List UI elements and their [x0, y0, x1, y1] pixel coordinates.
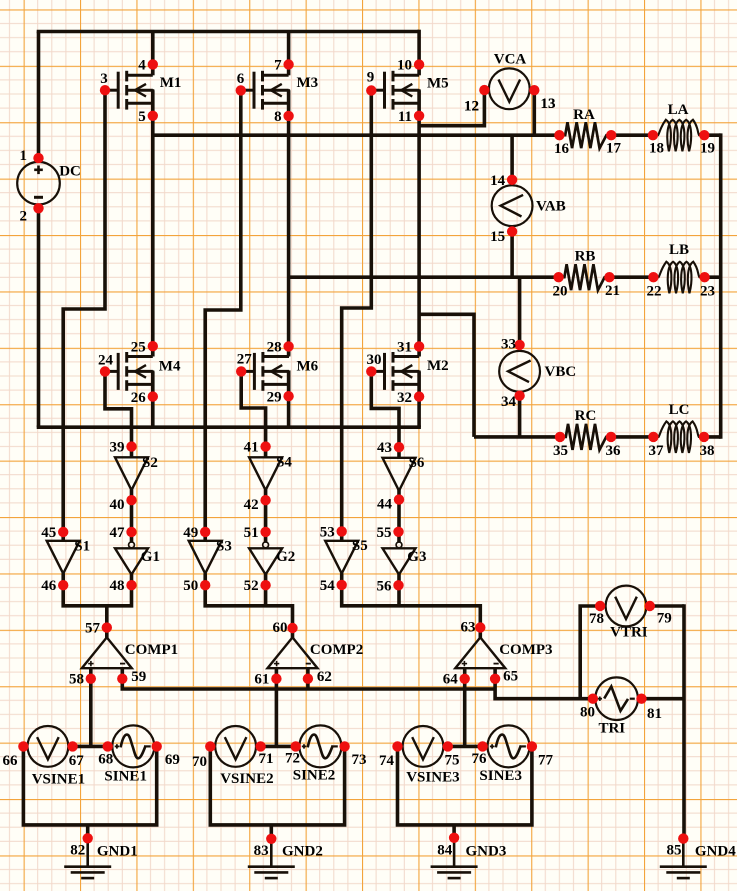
node 40	[110, 495, 137, 513]
node 72	[285, 741, 301, 766]
sine source SINE3	[488, 725, 530, 767]
comparator COMP2	[268, 637, 364, 668]
wire M6 gate to S4 input node 41	[241, 371, 265, 446]
node 73	[339, 741, 366, 768]
wire S4 to node 42 node 51 G2	[264, 490, 268, 543]
wire node 64 to sine row	[463, 679, 467, 747]
node 81	[636, 694, 662, 722]
svg-text:44: 44	[377, 496, 393, 512]
svg-text:G1: G1	[141, 549, 160, 565]
node 83	[254, 834, 277, 859]
ground GND4	[660, 839, 736, 879]
node 53	[320, 524, 347, 540]
wire S5 to node 54	[340, 573, 344, 585]
wire RC to LC link	[611, 435, 653, 439]
triangle source TRI	[595, 677, 638, 720]
wire LB to right rail	[705, 275, 721, 279]
node 20	[553, 272, 568, 299]
node 32	[397, 390, 424, 406]
svg-text:57: 57	[85, 620, 101, 636]
svg-text:47: 47	[110, 525, 126, 541]
buffer G3	[383, 542, 427, 575]
svg-text:VTRI: VTRI	[610, 625, 648, 641]
wire M2 source drop node 32	[417, 371, 421, 427]
wire node 11 to node 12 branch	[419, 90, 484, 126]
wire node 71 to node 72	[256, 745, 300, 749]
ground GND1	[64, 838, 138, 878]
node 9	[366, 70, 376, 96]
node 19	[699, 130, 715, 157]
node 60	[273, 620, 298, 636]
node 28	[267, 339, 294, 355]
svg-text:M4: M4	[159, 359, 181, 375]
node 56	[377, 578, 404, 594]
svg-text:VSINE2: VSINE2	[220, 771, 273, 787]
transistor M1	[105, 64, 181, 116]
node 21	[604, 272, 620, 299]
transistor M4	[105, 346, 181, 398]
svg-text:36: 36	[606, 443, 622, 459]
wire DC top lead	[37, 32, 41, 164]
node 48	[110, 578, 137, 594]
svg-text:39: 39	[110, 440, 125, 456]
node 63	[461, 620, 486, 636]
svg-text:78: 78	[589, 611, 604, 627]
node 55	[377, 525, 404, 541]
svg-text:GND2: GND2	[282, 843, 323, 859]
svg-text:28: 28	[267, 339, 282, 355]
wire node 65 to node 80 TRI	[495, 679, 597, 699]
node 31	[397, 340, 424, 356]
svg-text:COMP1: COMP1	[125, 642, 178, 658]
svg-text:1: 1	[20, 148, 28, 164]
wire right rail	[719, 133, 723, 438]
svg-text:63: 63	[461, 620, 476, 636]
svg-text:75: 75	[445, 752, 460, 768]
voltmeter VSINE3	[403, 726, 444, 767]
node 37	[648, 432, 664, 459]
svg-text:COMP2: COMP2	[310, 642, 363, 658]
node 38	[699, 432, 715, 459]
wire node 39 to S2	[130, 447, 134, 458]
svg-text:71: 71	[259, 751, 274, 767]
svg-text:64: 64	[443, 672, 459, 688]
node 57	[85, 620, 112, 636]
svg-text:14: 14	[490, 173, 506, 189]
wire node 75 to node 76	[443, 745, 487, 749]
node 74	[379, 741, 403, 769]
node 47	[110, 525, 137, 541]
node 80	[580, 694, 598, 721]
node 22	[647, 272, 662, 299]
svg-text:GND1: GND1	[97, 843, 138, 859]
svg-text:31: 31	[397, 340, 412, 356]
svg-text:77: 77	[538, 753, 554, 769]
svg-text:5: 5	[138, 109, 146, 125]
node 71	[255, 741, 273, 767]
node 16	[554, 130, 570, 157]
svg-text:S5: S5	[352, 538, 368, 554]
wire phase B vertical node 8 to node 28	[287, 90, 291, 356]
svg-text:TRI: TRI	[598, 721, 625, 737]
wire node 58 to sine row	[89, 679, 93, 747]
wire LC to right rail	[704, 435, 721, 439]
node 68	[98, 741, 113, 767]
wire node 34 drop to phase C rail	[518, 391, 522, 437]
node 26	[131, 390, 158, 406]
svg-text:62: 62	[317, 669, 332, 685]
svg-text:32: 32	[397, 390, 412, 406]
transistor M6	[241, 346, 318, 398]
svg-text:6: 6	[237, 71, 245, 87]
node 30	[366, 352, 381, 377]
node 66	[3, 741, 29, 769]
svg-text:7: 7	[274, 58, 282, 74]
node 44	[377, 494, 404, 512]
node 62	[303, 669, 332, 685]
svg-text:24: 24	[98, 353, 114, 369]
svg-text:RA: RA	[573, 107, 595, 123]
wire node 43 to S6	[397, 447, 401, 458]
node 33	[501, 336, 525, 352]
node 70	[192, 741, 216, 770]
svg-text:85: 85	[667, 843, 682, 859]
node 79	[645, 601, 672, 627]
svg-text:9: 9	[367, 70, 375, 86]
buffer S3	[189, 539, 232, 574]
svg-text:38: 38	[700, 443, 715, 459]
svg-text:DC: DC	[59, 164, 81, 180]
comparator COMP1	[82, 637, 178, 668]
resistor RA	[559, 107, 611, 148]
svg-text:S1: S1	[74, 539, 90, 555]
svg-text:VBC: VBC	[545, 364, 577, 380]
wire DC bottom lead	[37, 204, 41, 427]
svg-text:LB: LB	[669, 242, 689, 258]
wire LA to right rail	[704, 133, 720, 137]
node 13	[529, 85, 555, 112]
svg-text:83: 83	[254, 843, 269, 859]
svg-text:M6: M6	[297, 359, 319, 375]
DC source	[17, 162, 81, 205]
svg-text:COMP3: COMP3	[499, 642, 552, 658]
svg-text:54: 54	[320, 578, 336, 594]
svg-text:68: 68	[98, 752, 113, 768]
node 14	[490, 173, 517, 189]
svg-text:76: 76	[472, 751, 488, 767]
node 35	[553, 432, 568, 459]
wire M1 gate to S1 input	[63, 90, 105, 532]
node 36	[606, 432, 622, 459]
voltmeter VAB	[492, 185, 533, 226]
node 52	[244, 578, 271, 594]
node 8	[274, 109, 294, 125]
svg-text:42: 42	[244, 497, 259, 513]
svg-text:48: 48	[110, 578, 125, 594]
svg-text:20: 20	[553, 283, 568, 299]
svg-text:35: 35	[553, 443, 568, 459]
wire right vertical to node 85 GND4	[682, 604, 686, 838]
svg-text:VSINE3: VSINE3	[406, 770, 459, 786]
node 7	[274, 58, 294, 74]
node 69	[152, 741, 180, 768]
wire junction node 46 node 48 to node 57	[63, 585, 131, 606]
ground GND2	[248, 839, 323, 878]
node 78	[589, 601, 605, 627]
wire RB to LB link	[609, 275, 653, 279]
svg-text:G3: G3	[407, 549, 426, 565]
wire COMP3 input stubs	[463, 668, 467, 678]
wire S1 to node 46	[61, 573, 65, 585]
node 17	[606, 130, 622, 156]
node 54	[320, 578, 347, 594]
svg-text:G2: G2	[276, 549, 295, 565]
node 49	[183, 525, 210, 541]
sine source SINE1	[112, 725, 154, 767]
wire phase C branch to RC rail	[419, 314, 474, 437]
wire node 33 riser from phase B rail	[518, 277, 522, 352]
buffer S6	[383, 455, 425, 491]
wire node 53 to S5	[340, 531, 344, 541]
wire M5 gate to S5 input	[342, 90, 372, 531]
wire G2 to node 52	[264, 574, 268, 585]
svg-text:56: 56	[377, 578, 393, 594]
voltmeter VTRI	[606, 586, 647, 627]
wire node 78 node 80 left bracket	[580, 606, 606, 699]
svg-text:4: 4	[138, 57, 146, 73]
svg-text:82: 82	[70, 843, 85, 859]
wire node 79 to right vertical	[646, 604, 684, 608]
voltmeter VSINE2	[215, 726, 256, 767]
wire node 84 stub	[452, 825, 456, 838]
node 1	[20, 148, 44, 164]
svg-text:50: 50	[183, 578, 198, 594]
svg-text:S6: S6	[409, 455, 425, 471]
svg-text:M3: M3	[297, 75, 319, 91]
svg-text:S4: S4	[276, 455, 292, 471]
node 25	[131, 339, 158, 355]
svg-text:52: 52	[244, 578, 259, 594]
svg-text:74: 74	[379, 753, 395, 769]
svg-text:15: 15	[490, 229, 505, 245]
buffer S1	[47, 539, 90, 574]
svg-text:69: 69	[165, 752, 180, 768]
svg-text:53: 53	[320, 524, 335, 540]
svg-text:12: 12	[464, 99, 479, 115]
svg-text:29: 29	[267, 390, 282, 406]
buffer G2	[249, 542, 295, 575]
wire DC negative rail	[37, 425, 421, 429]
node 51	[244, 525, 271, 541]
node 43	[377, 440, 404, 456]
wire phase B rail to node 20	[289, 275, 559, 279]
ground GND3	[431, 838, 507, 878]
node 61	[254, 672, 281, 688]
wire S2 to node 40 node 47 G1	[130, 490, 134, 543]
transistor M5	[371, 64, 448, 116]
svg-text:45: 45	[41, 525, 56, 541]
node 85	[667, 833, 689, 858]
svg-text:60: 60	[273, 620, 288, 636]
buffer G1	[115, 542, 160, 575]
node 4	[138, 57, 158, 73]
svg-text:8: 8	[274, 109, 282, 125]
wire G3 to node 56	[397, 574, 401, 585]
svg-text:72: 72	[285, 750, 300, 766]
wire node 41 to S4	[264, 447, 268, 458]
transistor M3	[241, 64, 318, 116]
wire COMP1 input stubs	[89, 668, 93, 678]
svg-text:65: 65	[503, 669, 518, 685]
wire COMP2 input stubs	[275, 668, 279, 678]
wire top rail DC+	[37, 30, 419, 34]
wire junction node 50 node 52 to node 60	[205, 585, 292, 639]
svg-text:84: 84	[437, 843, 453, 859]
svg-text:RC: RC	[575, 408, 597, 424]
wire M6 source drop node 29	[287, 371, 291, 427]
svg-text:VAB: VAB	[536, 198, 566, 214]
node 23	[699, 272, 715, 299]
svg-text:16: 16	[554, 141, 570, 157]
wire M4 source drop node 26	[151, 371, 155, 427]
svg-text:13: 13	[541, 96, 556, 112]
wire node 61 to sine row	[275, 679, 279, 747]
node 42	[244, 495, 271, 513]
wire node 82 stub	[86, 825, 90, 838]
svg-text:61: 61	[254, 672, 269, 688]
node 10	[397, 58, 424, 74]
wire node 49 to S3	[203, 532, 207, 542]
svg-text:11: 11	[398, 109, 412, 125]
svg-text:51: 51	[244, 525, 259, 541]
transistor M2	[371, 346, 448, 398]
node 39	[110, 440, 137, 456]
node 6	[236, 71, 246, 96]
node 84	[437, 833, 459, 859]
node 34	[501, 391, 525, 410]
wire RC rail to node 35	[474, 435, 560, 439]
wire node 15 drop to phase B rail	[510, 226, 514, 277]
svg-text:VCA: VCA	[494, 52, 527, 68]
svg-text:41: 41	[244, 440, 259, 456]
svg-text:18: 18	[649, 141, 664, 157]
wire node 45 to S1	[61, 532, 65, 542]
node 11	[398, 109, 424, 125]
svg-text:58: 58	[69, 672, 84, 688]
node 15	[490, 226, 517, 245]
svg-text:33: 33	[501, 336, 516, 352]
svg-text:M1: M1	[160, 75, 182, 91]
svg-text:79: 79	[657, 610, 672, 626]
svg-text:GND4: GND4	[695, 843, 736, 859]
wire phase A vertical node 5 to node 25	[151, 90, 155, 356]
node 18	[648, 130, 664, 157]
wire comparator minus rail node 59 node 62 to node 65	[122, 679, 495, 689]
svg-text:27: 27	[237, 352, 253, 368]
inductor LC	[653, 402, 704, 453]
comparator COMP3	[455, 637, 552, 668]
buffer S2	[115, 455, 158, 490]
svg-text:59: 59	[131, 669, 146, 685]
node 46	[41, 578, 68, 594]
wire node 83 stub	[269, 825, 273, 839]
svg-text:22: 22	[647, 283, 662, 299]
wire node 67 to node 68	[68, 745, 113, 749]
wire VSINE1 SINE1 ground loop	[23, 746, 156, 825]
svg-text:S2: S2	[142, 455, 158, 471]
sine source SINE2	[299, 725, 341, 767]
svg-text:RB: RB	[575, 249, 596, 265]
node 59	[117, 669, 146, 685]
svg-text:LA: LA	[668, 102, 689, 118]
node 64	[443, 672, 470, 688]
node 82	[70, 833, 93, 858]
wire M4 gate to S2 input node 39	[105, 371, 132, 446]
wire M3 gate to S3 input	[205, 90, 241, 532]
voltmeter VCA	[489, 68, 530, 109]
wire VSINE3 SINE3 ground loop	[398, 746, 532, 825]
node 76	[472, 741, 488, 767]
svg-text:SINE3: SINE3	[479, 768, 522, 784]
wire M5 drain drop node 10	[417, 30, 421, 76]
svg-text:37: 37	[649, 443, 665, 459]
svg-text:26: 26	[131, 390, 147, 406]
svg-text:70: 70	[192, 754, 207, 770]
svg-text:43: 43	[377, 440, 392, 456]
svg-text:30: 30	[367, 352, 382, 368]
resistor RC	[560, 408, 611, 450]
voltmeter VBC	[499, 351, 540, 392]
wire VSINE2 SINE2 ground loop	[210, 746, 344, 825]
node 3	[100, 71, 110, 95]
node 29	[267, 390, 294, 406]
wire junction node 54 node 56 to node 63	[342, 585, 481, 639]
svg-text:S3: S3	[216, 539, 232, 555]
node 75	[443, 741, 460, 768]
node 5	[138, 109, 158, 125]
svg-text:46: 46	[41, 578, 57, 594]
svg-text:M5: M5	[427, 76, 449, 92]
svg-text:VSINE1: VSINE1	[32, 772, 85, 788]
svg-text:SINE1: SINE1	[104, 769, 147, 785]
node 77	[527, 741, 554, 768]
node 58	[69, 672, 96, 688]
svg-text:SINE2: SINE2	[293, 768, 336, 784]
wire node 81 to right vertical	[637, 697, 684, 701]
node 41	[244, 440, 271, 456]
svg-text:40: 40	[110, 497, 125, 513]
svg-text:LC: LC	[669, 402, 690, 418]
svg-text:34: 34	[501, 394, 517, 410]
svg-text:21: 21	[605, 283, 620, 299]
svg-text:23: 23	[700, 283, 715, 299]
svg-text:GND3: GND3	[466, 843, 507, 859]
node 27	[236, 352, 252, 377]
inductor LA	[653, 102, 704, 151]
svg-text:2: 2	[20, 209, 28, 225]
svg-text:17: 17	[606, 140, 622, 156]
wire phase A rail to node 16	[153, 133, 560, 137]
wire G1 to node 48	[130, 574, 134, 585]
svg-text:19: 19	[700, 141, 715, 157]
svg-text:80: 80	[580, 705, 595, 721]
node 65	[490, 669, 518, 685]
node 50	[183, 578, 210, 594]
resistor RB	[559, 249, 610, 291]
buffer S5	[325, 538, 368, 574]
svg-text:3: 3	[100, 71, 108, 87]
buffer S4	[249, 455, 292, 491]
